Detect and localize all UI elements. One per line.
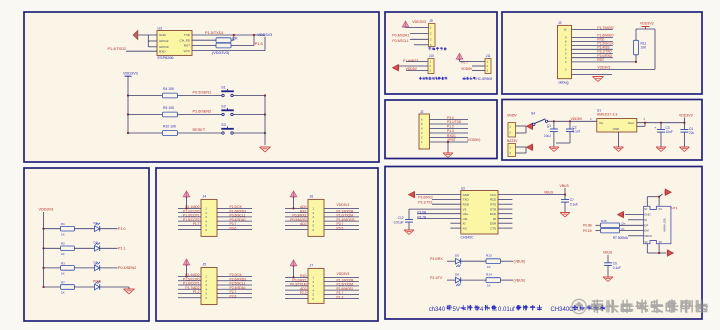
svg-text:R5 10K: R5 10K xyxy=(163,106,175,110)
wire led bus xyxy=(43,212,45,287)
svg-text:R15: R15 xyxy=(601,219,607,223)
svg-text:VDD3V3: VDD3V3 xyxy=(258,33,273,37)
power flag J1 xyxy=(527,123,533,129)
svg-text:J10: J10 xyxy=(429,54,434,58)
wire TXD net xyxy=(432,199,461,201)
svg-text:1K: 1K xyxy=(61,232,65,236)
svg-text:P0.5: P0.5 xyxy=(337,226,344,230)
svg-text:C6: C6 xyxy=(613,261,617,265)
svg-text:P0.4/SDA1: P0.4/SDA1 xyxy=(392,34,409,38)
svg-text:S2: S2 xyxy=(644,240,648,244)
resistor R2 1K xyxy=(61,246,75,251)
connector J5 xyxy=(201,268,217,305)
ground C4 xyxy=(679,146,689,148)
wire right key bus xyxy=(264,96,266,146)
svg-text:R4 10K: R4 10K xyxy=(163,87,175,91)
svg-text:GND: GND xyxy=(159,33,167,37)
wire resistor to led D3 xyxy=(75,267,95,269)
schematic sheet box 3 xyxy=(156,168,378,321)
svg-text:P0.7: P0.7 xyxy=(461,60,468,64)
svg-text:J2: J2 xyxy=(420,110,424,114)
schematic sheet box 5 xyxy=(502,12,702,94)
svg-text:1K: 1K xyxy=(61,252,65,256)
svg-text:VIN5V: VIN5V xyxy=(507,113,518,117)
svg-text:VDD3V3: VDD3V3 xyxy=(39,207,54,211)
wire to resistor R2 xyxy=(44,247,61,249)
svg-text:R14: R14 xyxy=(486,272,492,276)
svg-text:GPIO0: GPIO0 xyxy=(159,45,169,49)
svg-text:CH_PD: CH_PD xyxy=(180,38,191,42)
svg-text:P0.1B: P0.1B xyxy=(583,229,592,233)
svg-text:S1: S1 xyxy=(221,86,225,90)
svg-text:10uF: 10uF xyxy=(666,130,673,134)
wire to resistor R3 xyxy=(44,267,61,269)
svg-text:(VBUS): (VBUS) xyxy=(514,278,526,282)
schematic sheet box 1 xyxy=(24,12,379,162)
ground C6 xyxy=(603,276,613,278)
svg-text:J4: J4 xyxy=(203,195,207,199)
wire resistor to led POW xyxy=(75,286,95,288)
wire R13 to VBUS xyxy=(501,260,514,262)
wire VCC rail to VDD3V3 xyxy=(192,50,265,52)
connector J2 xyxy=(419,114,430,149)
svg-text:P1.7: P1.7 xyxy=(193,222,200,226)
svg-text:DSR: DSR xyxy=(490,221,497,225)
svg-text:U3: U3 xyxy=(158,26,163,30)
junction led row 1 xyxy=(42,228,44,230)
svg-text:1K: 1K xyxy=(61,291,65,295)
svg-text:J3: J3 xyxy=(558,21,562,25)
wires J6 left pins xyxy=(285,207,308,209)
wire R11 to RST net xyxy=(635,55,637,62)
svg-text:AD2: AD2 xyxy=(300,222,307,226)
svg-text:RXD: RXD xyxy=(159,49,166,53)
svg-text:P1.2: P1.2 xyxy=(193,290,200,294)
svg-text:RCE: RCE xyxy=(490,198,496,202)
wires J7 left pins xyxy=(285,276,308,278)
svg-text:D1: D1 xyxy=(94,221,98,225)
wire UD- net xyxy=(417,218,461,220)
svg-text:R10 10K: R10 10K xyxy=(163,125,177,129)
ground below keys xyxy=(260,146,271,148)
svg-text:P1.1: P1.1 xyxy=(118,246,126,250)
resistor R16 xyxy=(596,230,601,232)
caption GY30 module xyxy=(428,47,431,50)
power arrow for J4 xyxy=(183,191,190,197)
svg-text:D6: D6 xyxy=(455,272,459,276)
connector J4 xyxy=(201,199,217,236)
svg-text:R2: R2 xyxy=(61,242,65,246)
svg-text:S1: S1 xyxy=(644,207,648,211)
resistor R7 1K xyxy=(61,285,75,290)
wire CH340 GND pin to flag xyxy=(416,194,461,196)
wires J7 right pins xyxy=(324,276,359,278)
svg-text:HC-SR505: HC-SR505 xyxy=(476,77,492,81)
connector J3 debug xyxy=(558,25,572,78)
svg-text:AMS1117-3.3: AMS1117-3.3 xyxy=(597,112,617,116)
resistor R14 1K xyxy=(486,278,501,283)
junction led row 2 xyxy=(42,247,44,249)
svg-text:P3.1/TX: P3.1/TX xyxy=(430,276,443,280)
svg-text:XI: XI xyxy=(463,221,466,225)
wire switch to right bus xyxy=(233,95,265,97)
power arrow left J10 xyxy=(393,65,399,71)
svg-text:P3.1/TXD: P3.1/TXD xyxy=(447,120,462,124)
wires resistors to USB pins xyxy=(620,224,644,226)
svg-text:0.01uF: 0.01uF xyxy=(394,220,404,224)
svg-text:C12: C12 xyxy=(398,216,404,220)
capacitor C2 0.1uF xyxy=(569,120,571,122)
wire to resistor R7 xyxy=(44,286,61,288)
power flag J12 xyxy=(527,144,533,150)
wires J9 pins xyxy=(406,26,429,28)
ground C1 xyxy=(549,146,559,148)
svg-text:VDD3V3: VDD3V3 xyxy=(123,72,138,76)
svg-text:1K: 1K xyxy=(487,265,491,269)
ground C12 xyxy=(404,229,414,231)
connector J6 xyxy=(308,199,324,236)
svg-text:VBUS: VBUS xyxy=(644,234,652,238)
svg-text:VDD3V3: VDD3V3 xyxy=(412,20,426,24)
svg-text:ch340: ch340 xyxy=(429,307,446,313)
connector J10 photoresistor xyxy=(428,59,434,74)
svg-text:VCC: VCC xyxy=(490,193,497,197)
svg-text:R7: R7 xyxy=(61,280,65,284)
connector J12 battery xyxy=(508,144,516,157)
svg-text:VDD3V3: VDD3V3 xyxy=(337,203,350,207)
wire to net P1.1 xyxy=(100,247,118,249)
svg-text:MINI-USB: MINI-USB xyxy=(663,218,667,231)
wire USB shield bottom xyxy=(646,244,648,253)
svg-text:Vin: Vin xyxy=(599,121,604,125)
resistor R4 10K xyxy=(163,93,178,98)
svg-text:VDD5V: VDD5V xyxy=(571,117,583,121)
wires J11 pins xyxy=(459,59,461,61)
junction key row 2 xyxy=(127,113,129,115)
wire gnd bus esp xyxy=(147,35,149,47)
LED D5 xyxy=(447,260,456,262)
svg-text:DP: DP xyxy=(644,223,648,227)
svg-text:P1.5/TXD1: P1.5/TXD1 xyxy=(205,31,224,35)
svg-text:P0.4/SEN2: P0.4/SEN2 xyxy=(118,266,136,270)
wire to resistor R5 xyxy=(128,114,162,116)
LED D3 xyxy=(95,265,100,271)
LED D2 xyxy=(95,246,100,252)
wire left key bus xyxy=(127,96,129,134)
resistor R3 pullup xyxy=(192,45,216,47)
svg-text:J9: J9 xyxy=(429,19,433,23)
svg-text:(VBUS): (VBUS) xyxy=(514,259,526,263)
svg-text:UT1: UT1 xyxy=(672,206,678,210)
ground regulator xyxy=(614,146,624,148)
svg-text:DTR: DTR xyxy=(490,207,497,211)
svg-text:10K: 10K xyxy=(641,46,648,50)
svg-text:P3.0/RX: P3.0/RX xyxy=(430,257,443,261)
svg-text:P3.0/RX2: P3.0/RX2 xyxy=(418,196,433,200)
svg-text:P1.3: P1.3 xyxy=(337,295,344,299)
wire to resistor R1 xyxy=(44,228,61,230)
wire VCC to VBUS xyxy=(498,194,565,196)
wires J4 right pins xyxy=(217,207,252,209)
resistor R5 10K xyxy=(163,112,178,117)
svg-text:GPIO2: GPIO2 xyxy=(159,39,169,43)
svg-text:VDD3V3: VDD3V3 xyxy=(337,272,350,276)
svg-text:P1.7/MOSI: P1.7/MOSI xyxy=(597,26,613,30)
wire R14 to VBUS xyxy=(501,279,514,281)
wires J10 pins xyxy=(406,61,428,63)
wire J2 to ground xyxy=(447,142,449,153)
svg-text:R13: R13 xyxy=(486,253,492,257)
wires debug pins xyxy=(572,29,613,31)
schematic sheet box 6 xyxy=(385,100,497,159)
svg-text:1K: 1K xyxy=(487,284,491,288)
svg-text:RT 500MA: RT 500MA xyxy=(613,236,629,240)
op IC U3 ESP8266 module xyxy=(157,31,192,56)
svg-text:0.01uf: 0.01uf xyxy=(498,307,515,313)
wire regulator ground xyxy=(618,132,620,148)
wire led D5 to R13 xyxy=(461,260,486,262)
power flag USB gnd xyxy=(618,211,624,217)
caption human sensor HC-SR505 xyxy=(463,77,466,80)
svg-text:P2.2: P2.2 xyxy=(300,291,307,295)
resistor R15 xyxy=(596,224,601,226)
svg-text:P1.0: P1.0 xyxy=(118,227,126,231)
schematic sheet box 8 xyxy=(385,167,702,320)
wire switch to right bus xyxy=(233,132,265,134)
svg-text:(VDD5V): (VDD5V) xyxy=(467,138,481,142)
svg-text:S4: S4 xyxy=(659,207,663,211)
svg-text:U2: U2 xyxy=(461,186,465,190)
svg-text:P0.5/SCL1: P0.5/SCL1 xyxy=(392,39,409,43)
ground C7 xyxy=(560,212,570,214)
wires J5 right pins xyxy=(217,276,252,278)
svg-text:R3: R3 xyxy=(61,261,65,265)
USB connector UT1 MINI-USB xyxy=(644,206,671,243)
svg-text:J7: J7 xyxy=(310,264,314,268)
power arrow up J11 xyxy=(456,53,463,59)
svg-text:VDD3V3: VDD3V3 xyxy=(640,21,654,25)
svg-text:P2.6: P2.6 xyxy=(230,294,237,298)
wire TXD rail xyxy=(192,34,265,36)
watermark juejin community xyxy=(572,299,708,313)
wire pullup joins xyxy=(231,39,234,41)
svg-text:P1.6/SEN2: P1.6/SEN2 xyxy=(193,110,212,114)
capacitor C3 10uF xyxy=(660,122,662,124)
svg-text:ESP8266: ESP8266 xyxy=(158,56,174,60)
ground C3 xyxy=(656,146,666,148)
svg-text:VCC: VCC xyxy=(183,49,190,53)
svg-text:V3: V3 xyxy=(463,207,467,211)
op IC U2 CH340C xyxy=(461,191,498,235)
svg-text:5V: 5V xyxy=(453,307,460,313)
svg-text:22u: 22u xyxy=(689,131,695,135)
svg-text:XO: XO xyxy=(463,226,468,230)
svg-text:DCD: DCD xyxy=(490,212,497,216)
svg-text:S3: S3 xyxy=(221,123,225,127)
svg-text:P1.3: P1.3 xyxy=(447,129,454,133)
wire POW led to ground xyxy=(100,286,129,288)
resistor R1 1K xyxy=(61,226,75,231)
resistor R3 1K xyxy=(61,266,75,271)
junction key row 3 xyxy=(127,132,129,134)
svg-text:TXD: TXD xyxy=(184,33,191,37)
svg-text:CH340C: CH340C xyxy=(551,307,575,313)
svg-text:D3: D3 xyxy=(94,260,98,264)
pin stubs XI XO xyxy=(450,222,460,224)
svg-text:P1.6/INT2: P1.6/INT2 xyxy=(403,59,418,63)
svg-text:J11: J11 xyxy=(486,54,491,58)
antenna ANT1 xyxy=(138,34,157,36)
power flag left CH340 xyxy=(409,191,415,197)
svg-text:BAT5V: BAT5V xyxy=(507,139,518,143)
wire resistor to led D2 xyxy=(75,247,95,249)
wire to net P0.4/SEN2 xyxy=(100,267,118,269)
svg-text:GND: GND xyxy=(463,193,471,197)
wire V3 pin to C12 xyxy=(409,208,461,210)
svg-text:VDD3V3: VDD3V3 xyxy=(679,113,693,117)
svg-text:CH340C: CH340C xyxy=(461,235,475,239)
resistor R11 10K pullup xyxy=(634,40,639,55)
power arrow for J7 xyxy=(290,260,297,266)
wires J12 xyxy=(516,146,527,148)
svg-text:P3.6B: P3.6B xyxy=(417,210,426,214)
wire VDD3V3 net vertical xyxy=(654,29,656,70)
capacitor C6 0.1uF xyxy=(607,255,609,263)
svg-text:GND: GND xyxy=(644,213,650,217)
wire resistor to led D1 xyxy=(75,228,95,230)
svg-text:P0.0B: P0.0B xyxy=(583,223,592,227)
svg-text:P3.7B: P3.7B xyxy=(417,215,426,219)
svg-text:RST: RST xyxy=(184,44,190,48)
svg-text:RI: RI xyxy=(493,217,496,221)
svg-text:RXD1: RXD1 xyxy=(447,134,456,138)
svg-text:S4: S4 xyxy=(531,112,535,116)
svg-text:D5: D5 xyxy=(455,253,459,257)
svg-text:RXD: RXD xyxy=(463,202,470,206)
pin stubs USB xyxy=(628,219,644,221)
svg-text:P0.6: P0.6 xyxy=(230,226,237,230)
resistor R13 1K xyxy=(486,259,501,264)
net label RESET xyxy=(178,132,223,134)
net label P0.5/SEN1 xyxy=(178,95,223,97)
wire led D6 to R14 xyxy=(461,279,486,281)
ground POW led xyxy=(124,288,135,290)
svg-text:C1: C1 xyxy=(547,124,551,128)
svg-text:P3.1/TX2: P3.1/TX2 xyxy=(418,200,432,204)
svg-text:P0.5/SEN1: P0.5/SEN1 xyxy=(193,91,212,95)
wire UD+ net xyxy=(417,213,461,215)
ground debug xyxy=(593,76,604,78)
svg-text:RST: RST xyxy=(597,58,604,62)
capacitor C1 10uF xyxy=(553,120,555,122)
svg-text:S2: S2 xyxy=(221,105,225,109)
LED D1 xyxy=(95,226,100,232)
svg-text:VDD3V3: VDD3V3 xyxy=(597,66,610,70)
svg-text:VBUS: VBUS xyxy=(560,184,570,188)
connector J11 HC-SR505 xyxy=(485,59,491,74)
caption photoresistor circuit xyxy=(419,77,422,80)
svg-text:UD+: UD+ xyxy=(463,212,469,216)
svg-text:R1: R1 xyxy=(61,222,65,226)
svg-text:P1.6: P1.6 xyxy=(255,42,263,46)
wire net P1.4/TXD2 to RXD xyxy=(126,50,157,52)
svg-text:POW: POW xyxy=(93,279,102,283)
power arrow for J5 xyxy=(183,259,190,265)
svg-text:GND: GND xyxy=(613,127,621,131)
wires CH340 right pins xyxy=(498,199,512,201)
svg-text:CTS: CTS xyxy=(490,226,496,230)
capacitor C4 22uF xyxy=(683,122,685,124)
schematic sheet box 4 xyxy=(385,12,497,94)
svg-text:TXD: TXD xyxy=(463,198,470,202)
svg-text:debug: debug xyxy=(559,80,569,84)
wire to resistor R4 xyxy=(128,95,162,97)
svg-text:0.1uF: 0.1uF xyxy=(570,202,578,206)
svg-text:UD-: UD- xyxy=(463,217,468,221)
svg-text:J5: J5 xyxy=(203,263,207,267)
wire debug gnd pin xyxy=(572,74,613,76)
svg-text:C7: C7 xyxy=(570,198,574,202)
capacitor C12 0.01uF xyxy=(405,219,413,221)
resistor R10 10K xyxy=(163,131,178,136)
junction key row 1 xyxy=(127,94,129,96)
connector J7 xyxy=(308,268,324,303)
power flag shield bottom xyxy=(667,250,673,256)
wires J5 left pins xyxy=(178,276,201,278)
wire switch to right bus xyxy=(233,114,265,116)
resistor R2 pullup xyxy=(192,39,216,41)
wire to resistor R10 xyxy=(128,132,162,134)
svg-text:P3.0: P3.0 xyxy=(447,116,454,120)
svg-text:10uJ: 10uJ xyxy=(544,134,551,138)
svg-text:S3: S3 xyxy=(659,240,663,244)
schematic sheet box 2 xyxy=(24,168,149,321)
net label P1.6/SEN2 xyxy=(178,114,223,116)
svg-text:P1.4/TXD2: P1.4/TXD2 xyxy=(108,47,127,51)
wire RXD net xyxy=(432,203,461,205)
wires J2 pins xyxy=(430,119,469,121)
wire USB gnd pin xyxy=(625,214,644,216)
svg-text:0.1uf: 0.1uf xyxy=(573,130,580,134)
connector J1 power in xyxy=(508,123,516,138)
wire output rail xyxy=(637,122,685,124)
svg-text:(VDD3V3): (VDD3V3) xyxy=(212,51,230,55)
power arrow VDD3V3 for J9 xyxy=(402,21,409,27)
LED POW xyxy=(95,284,100,290)
svg-text:D2: D2 xyxy=(94,241,98,245)
wires J6 right pins xyxy=(324,207,359,209)
svg-text:VBUS: VBUS xyxy=(544,191,554,195)
svg-text:J6: J6 xyxy=(310,195,314,199)
wire to net P1.0 xyxy=(100,228,118,230)
wire USB shield top xyxy=(646,197,648,207)
svg-text:0.1uF: 0.1uF xyxy=(613,266,621,270)
LED D6 xyxy=(447,279,456,281)
wire input rail xyxy=(548,120,597,122)
power arrow for J6 xyxy=(290,191,297,197)
schematic sheet box 7 xyxy=(502,100,702,161)
wire ESP8266 left pins xyxy=(148,40,157,42)
svg-text:DM: DM xyxy=(644,229,649,233)
svg-text:RTS: RTS xyxy=(490,202,496,206)
junction led row 3 xyxy=(42,267,44,269)
svg-text:RESET: RESET xyxy=(193,128,206,132)
capacitor C7 0.1uF xyxy=(561,199,569,201)
svg-text:Vout: Vout xyxy=(628,121,634,125)
svg-text:1K: 1K xyxy=(61,272,65,276)
svg-text:VBUS: VBUS xyxy=(603,251,613,255)
svg-text:VDD5V: VDD5V xyxy=(461,67,473,71)
